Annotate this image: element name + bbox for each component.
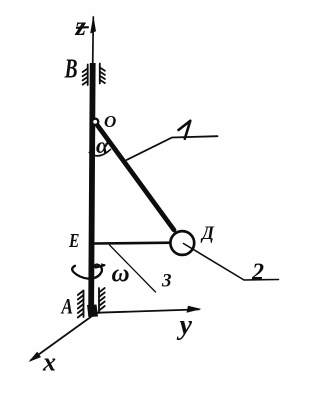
svg-text:A: A xyxy=(60,294,73,319)
svg-text:E: E xyxy=(68,229,79,251)
svg-text:2: 2 xyxy=(251,260,264,286)
svg-text:B: B xyxy=(64,55,78,85)
svg-text:α: α xyxy=(96,133,110,158)
svg-text:O: O xyxy=(104,112,116,131)
svg-text:ω: ω xyxy=(112,261,130,288)
svg-text:z: z xyxy=(75,11,87,41)
svg-text:y: y xyxy=(177,310,193,341)
svg-text:3: 3 xyxy=(161,271,172,292)
svg-text:Д: Д xyxy=(200,222,214,243)
svg-text:x: x xyxy=(42,348,56,377)
